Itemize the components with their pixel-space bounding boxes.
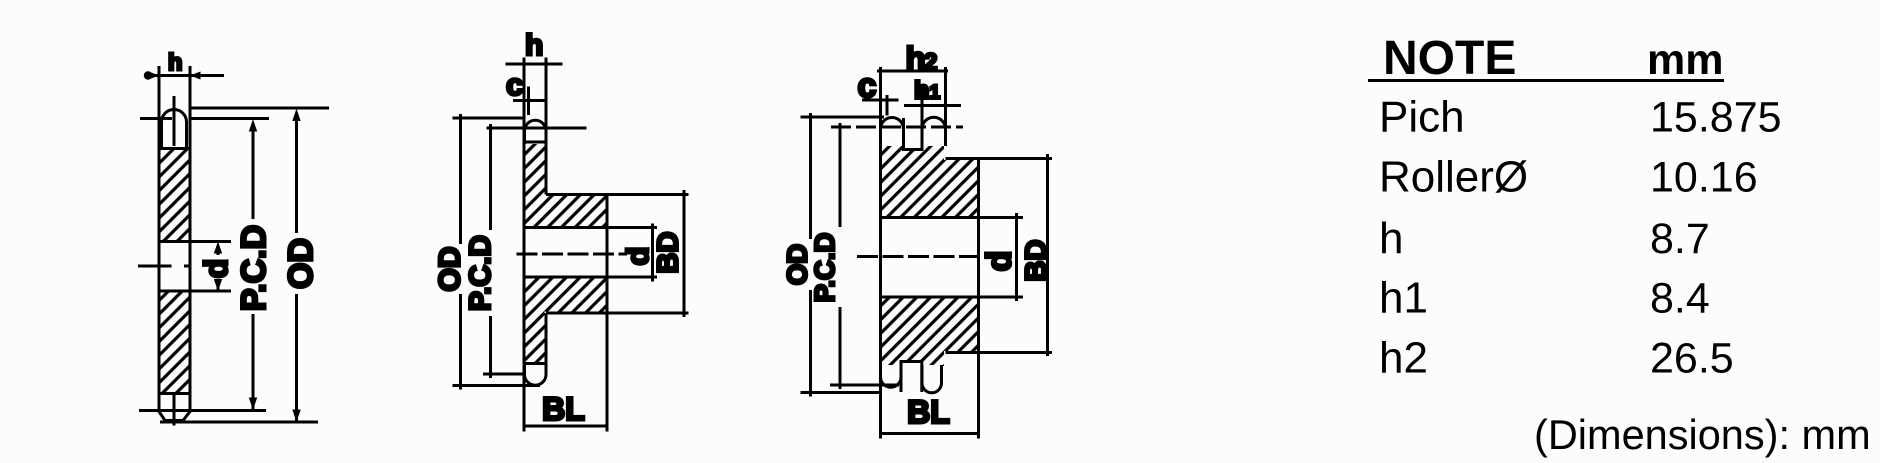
svg-text:BL: BL <box>907 394 950 430</box>
svg-text:c: c <box>858 67 877 105</box>
svg-text:h: h <box>1379 214 1403 263</box>
svg-text:OD: OD <box>282 238 320 289</box>
svg-text:BD: BD <box>653 232 685 274</box>
svg-text:h1: h1 <box>1379 274 1428 323</box>
svg-text:h: h <box>906 40 926 77</box>
svg-text:RollerØ: RollerØ <box>1379 153 1528 202</box>
svg-text:2: 2 <box>924 49 937 76</box>
svg-text:P.C.D: P.C.D <box>235 225 273 311</box>
svg-text:1: 1 <box>930 83 941 104</box>
svg-text:d: d <box>198 259 234 279</box>
svg-text:h2: h2 <box>1379 334 1428 383</box>
svg-text:mm: mm <box>1647 36 1723 84</box>
svg-text:(Dimensions): mm: (Dimensions): mm <box>1534 411 1871 458</box>
svg-text:h: h <box>525 29 543 62</box>
svg-text:26.5: 26.5 <box>1650 335 1734 383</box>
svg-text:BL: BL <box>542 391 585 427</box>
svg-text:8.7: 8.7 <box>1650 215 1710 263</box>
svg-text:d: d <box>981 251 1019 272</box>
svg-text:8.4: 8.4 <box>1650 275 1710 323</box>
svg-text:BD: BD <box>1021 240 1053 282</box>
svg-text:h: h <box>914 77 929 105</box>
svg-text:Pich: Pich <box>1379 93 1465 142</box>
svg-text:c: c <box>506 67 523 102</box>
svg-text:OD: OD <box>782 244 813 285</box>
svg-text:P.C.D: P.C.D <box>809 233 840 303</box>
svg-text:NOTE: NOTE <box>1383 32 1516 85</box>
svg-text:P.C.D: P.C.D <box>464 235 497 311</box>
svg-text:15.875: 15.875 <box>1650 94 1782 142</box>
svg-text:d: d <box>620 247 655 266</box>
svg-text:h: h <box>168 49 182 75</box>
svg-text:10.16: 10.16 <box>1650 154 1758 202</box>
svg-text:OD: OD <box>434 247 467 292</box>
